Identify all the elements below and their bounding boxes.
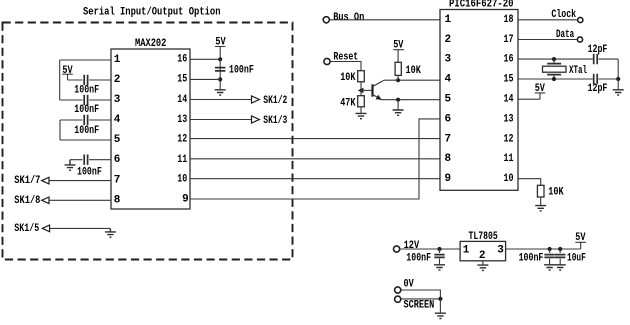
resistor R3 10K [395,62,401,75]
power 5V above R3 [393,40,404,63]
svg-text:4: 4 [445,74,452,86]
svg-text:2: 2 [445,34,452,46]
wire MAX pin11 to PIC pin8 [190,158,440,160]
wire R1 to junction [360,82,362,96]
wire PIC pin17 to Data [518,39,577,41]
ground xtal [613,90,624,95]
wire rail cap C5 [219,59,221,90]
svg-text:2: 2 [114,74,121,86]
node dot 12V cap [437,247,441,251]
wire PIC pin10 to R4 [518,179,541,186]
node dot screen [438,297,442,301]
transistor Q1 emitter [373,94,382,99]
node dot C10 [558,247,562,251]
crystal X1 [543,59,567,79]
wire 0V [401,290,440,299]
ground under R4 [535,206,546,211]
svg-text:10K: 10K [340,72,356,84]
wire pin14 [190,99,252,101]
svg-text:11: 11 [177,154,187,166]
wire R3 to collector node [397,75,399,80]
wire pin8 to SK1/8 [49,199,111,201]
capacitor C4 100nF on pin6 [84,155,87,165]
power 5V output [575,232,586,249]
ground under C5 [215,90,226,95]
svg-text:1: 1 [463,244,470,256]
svg-text:4: 4 [114,114,121,126]
svg-text:SK1/8: SK1/8 [14,195,40,207]
wire pin1 to left rail [60,59,111,61]
wire collector to PIC pin4 [384,79,440,81]
svg-text:13: 13 [504,113,514,125]
svg-text:14: 14 [504,94,514,106]
wire pin15 [190,78,220,80]
capacitor C10 10uF [555,249,565,265]
svg-text:7: 7 [445,133,452,145]
svg-text:15: 15 [504,74,514,86]
power 5V above pin16 cap [215,37,226,60]
wire PIC pin15 xtal bottom [518,78,618,80]
svg-text:10uF: 10uF [567,252,586,264]
dashed option box border [3,23,293,260]
arrow SK1/8 [42,197,49,204]
svg-text:TL7805: TL7805 [469,231,498,243]
svg-text:9: 9 [445,173,452,185]
svg-text:3: 3 [497,244,504,256]
svg-text:17: 17 [504,34,514,46]
svg-text:0V: 0V [404,279,415,291]
wire Reset [331,62,361,71]
svg-text:16: 16 [504,54,514,66]
wire pin13 [190,119,252,121]
wire pin3 [60,99,111,101]
wire SCREEN [401,298,440,300]
wire pin16 [190,58,220,60]
svg-text:10K: 10K [548,186,564,198]
node dot pin15 [218,77,222,81]
wire PIC pin14 [518,98,540,100]
capacitor C2 100nF on pin3 [84,95,87,105]
arrow SK1/5 [42,225,49,232]
svg-text:SK1/3: SK1/3 [263,115,287,127]
IC U1 MAX202 box [111,49,190,209]
wire R4 to ground [540,197,542,206]
ground under TL7805 [477,265,488,270]
svg-text:6: 6 [445,113,452,125]
capacitor C3 100nF on pin4 [84,115,87,125]
capacitor C6 12pF top [594,54,598,64]
ground under R2 [356,113,367,118]
ground screen [435,313,446,318]
wire MAX pin10 to PIC pin9 [190,178,440,180]
terminal 0V [395,287,401,293]
terminal Reset [324,58,330,64]
resistor R1 10K [358,71,365,82]
capacitor C8 100nF input [434,249,444,265]
capacitor C9 100nF output [544,249,554,265]
wire pin5 [60,139,111,141]
wire emitter to PIC pin5 [382,99,441,101]
terminal 12V [394,246,400,252]
wire rail pin1-pin3 [59,60,61,100]
wire pin7 to SK1/7 [49,180,111,182]
transistor Q1 base bar [371,84,373,96]
arrow SK1/2 [252,96,260,103]
capacitor C1 100nF on pin2 [84,75,87,85]
svg-text:12V: 12V [404,240,420,252]
wire MAX pin9 to PIC pin6 [190,119,440,199]
power 5V at PIC pin14 [535,83,546,99]
svg-text:11: 11 [504,153,514,165]
svg-text:2: 2 [479,250,486,262]
svg-text:15: 15 [177,74,187,86]
wire SK1/5 [50,227,111,229]
svg-text:10: 10 [504,173,514,185]
wire MAX pin12 to PIC pin7 [190,138,440,140]
wire TL7805 pin2 to ground [482,261,484,265]
wire pin6 [70,159,111,161]
IC U2 PIC16F627-20 box [440,10,518,191]
wire rail pin4-pin5 [59,120,61,140]
svg-text:Bus On: Bus On [333,12,364,24]
node dot pin16 [218,57,222,61]
svg-text:5: 5 [114,134,121,146]
terminal Bus On [323,17,329,23]
node dot collector [396,78,400,82]
terminal Data [577,37,582,42]
emitter arrow of Q1 [358,88,364,93]
svg-text:MAX202: MAX202 [135,38,166,50]
capacitor C5 100nF [215,68,225,71]
svg-text:PIC16F627-20: PIC16F627-20 [449,0,514,10]
svg-text:100nF: 100nF [406,252,431,264]
svg-text:10K: 10K [406,65,422,77]
emitter arrowhead Q1 [376,95,382,100]
terminal SCREEN [395,296,401,302]
svg-text:8: 8 [114,194,121,206]
svg-text:SCREEN: SCREEN [404,299,435,311]
terminal Clock [578,17,583,22]
svg-text:100nF: 100nF [77,166,102,178]
svg-text:12: 12 [177,134,187,146]
wire PIC pin16 xtal top [518,58,618,60]
svg-text:SK1/2: SK1/2 [263,95,287,107]
svg-text:1: 1 [114,54,121,66]
ground under C4 [65,160,76,171]
svg-text:5: 5 [445,94,452,106]
svg-text:10: 10 [177,174,187,186]
wire pin4 [60,119,111,121]
svg-text:16: 16 [177,54,187,66]
ground under C9 [544,265,555,270]
svg-text:8: 8 [445,153,452,165]
node dot xtal rail [616,77,620,81]
ground under emitter [393,110,404,115]
svg-text:Data: Data [556,29,574,41]
power 5V at MAX pin2 [62,65,73,80]
node dot emitter [396,98,400,102]
wire pin2 [68,79,112,81]
svg-text:7: 7 [114,174,121,186]
wire screen to ground [439,299,441,313]
wire regulator output [506,248,581,250]
svg-text:100nF: 100nF [519,252,544,264]
svg-text:18: 18 [504,14,514,26]
node dot xtal top [552,57,556,61]
svg-text:3: 3 [445,54,452,66]
svg-text:SK1/7: SK1/7 [14,175,40,187]
node dot xtal bottom [552,77,556,81]
svg-text:12pF: 12pF [588,83,608,95]
resistor R2 47K [358,96,365,107]
svg-text:9: 9 [182,194,189,206]
svg-text:1: 1 [445,14,452,26]
wire Bus On to PIC pin1 [330,19,440,21]
node dot C9 [548,247,552,251]
svg-text:3: 3 [114,94,121,106]
wire 12V to regulator [400,248,460,250]
svg-text:Serial Input/Output Option: Serial Input/Output Option [83,6,221,18]
svg-text:100nF: 100nF [74,84,99,96]
ground under C10 [555,265,566,270]
arrow SK1/7 [42,177,49,184]
svg-text:100nF: 100nF [74,104,99,116]
capacitor C7 12pF bottom [594,74,598,84]
svg-text:6: 6 [114,154,121,166]
svg-text:100nF: 100nF [229,65,254,77]
svg-text:13: 13 [177,114,187,126]
svg-text:XTal: XTal [569,65,587,77]
resistor R4 10K [537,185,544,197]
svg-text:Clock: Clock [551,9,576,21]
svg-text:12pF: 12pF [588,44,608,56]
base lead Q1 [361,89,373,91]
wire PIC pin18 to Clock [518,19,577,21]
ground under C8 [434,265,445,270]
IC U3 TL7805 box [460,241,506,260]
arrow SK1/3 [252,116,260,123]
svg-text:100nF: 100nF [74,125,99,137]
svg-text:SK1/5: SK1/5 [14,223,39,235]
transistor Q1 collector [373,80,385,86]
svg-text:47K: 47K [340,97,356,109]
ground at SK1/5 [105,228,116,237]
wire R2 to ground [360,107,362,114]
wire rail to ground [617,79,619,90]
svg-text:14: 14 [177,94,187,106]
svg-text:12: 12 [504,133,514,145]
wire emitter node to ground [397,100,399,110]
wire xtal right rail [617,59,619,79]
